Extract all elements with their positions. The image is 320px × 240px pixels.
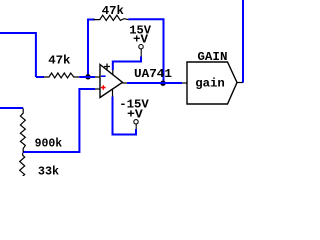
svg-text:47k: 47k	[48, 53, 71, 67]
op-amp U1 triangle	[100, 65, 123, 98]
svg-text:+V: +V	[133, 32, 149, 46]
pin stub inverting input	[95, 76, 100, 78]
port -15V circle	[134, 120, 138, 124]
wire non-inverting input net	[23, 89, 95, 152]
svg-text:33k: 33k	[38, 164, 60, 176]
wire V- supply	[113, 97, 137, 135]
wire R2 right to corner down to output	[129, 19, 164, 83]
node junction dot inverting	[85, 74, 90, 79]
resistor R3 900k vertical	[20, 109, 25, 153]
port +15V circle	[139, 45, 143, 49]
wire output to port	[127, 82, 182, 84]
svg-text:gain: gain	[195, 77, 225, 91]
resistor R2 47k top	[94, 15, 129, 20]
wire R1 left lead net	[36, 76, 44, 78]
port GAIN polygon	[187, 62, 237, 104]
resistor R4 33k vertical	[20, 153, 25, 177]
wire input top-left horizontal	[0, 33, 36, 77]
port GAIN right stub	[237, 82, 243, 84]
wire segment over output junction	[160, 82, 166, 84]
port +15V stub	[140, 49, 142, 57]
marker V+ plus (black)	[104, 64, 110, 70]
node junction dot output	[160, 81, 165, 86]
wire port tip up	[242, 0, 244, 83]
svg-text:+V: +V	[127, 108, 143, 122]
marker minus input (blue)	[101, 75, 106, 77]
resistor R1 47k horizontal	[44, 73, 80, 78]
port -15V stub	[135, 124, 137, 129]
wire feedback left vertical	[88, 20, 95, 77]
pin stub non-inverting input	[95, 88, 100, 90]
wire 900k top	[0, 107, 23, 109]
svg-text:GAIN: GAIN	[197, 50, 227, 64]
svg-text:900k: 900k	[35, 136, 63, 150]
svg-text:UA741: UA741	[134, 67, 172, 81]
pin stub V+	[112, 70, 114, 75]
wire R1 to inverting input	[79, 76, 95, 78]
pin stub output	[123, 82, 128, 84]
port GAIN left stub	[182, 82, 187, 84]
wire V+ supply	[113, 57, 141, 71]
pin stub V-	[112, 90, 114, 97]
svg-text:47k: 47k	[102, 4, 125, 18]
marker plus input (red)	[101, 85, 106, 90]
